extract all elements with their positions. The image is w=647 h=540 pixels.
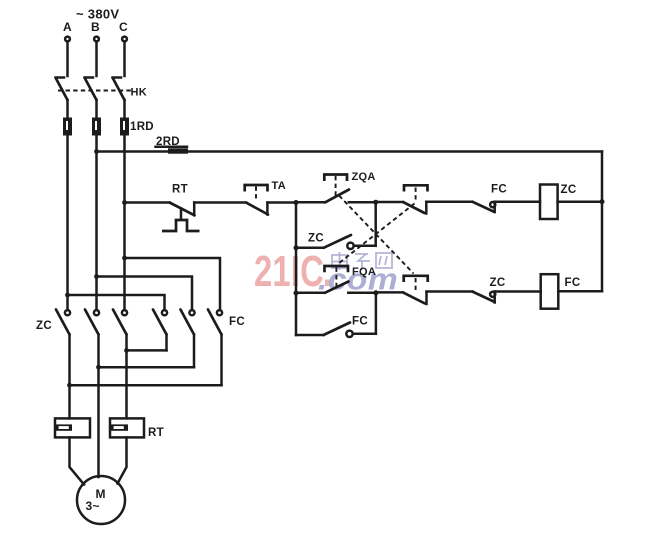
wire FC2 output to phase B: [99, 366, 195, 369]
contactor ZC main pole 1: [56, 310, 70, 386]
wire A feed to FC pole 1: [68, 295, 165, 310]
contact ZQA interlock (NC in reverse row): [403, 276, 428, 304]
node X1: [294, 200, 299, 205]
svg-text:ZC: ZC: [490, 277, 506, 289]
svg-text:HK: HK: [131, 87, 148, 99]
contact ZC (NC electrical interlock, row2): [472, 292, 495, 303]
wire right bus: [601, 152, 604, 292]
node control tap on phase B: [94, 149, 99, 154]
pushbutton ZQA (NO start forward): [296, 175, 376, 203]
wire heater C to motor: [118, 437, 127, 483]
wire interlock to FC contact: [426, 200, 472, 203]
pushbutton FQA (NO start reverse): [296, 266, 376, 293]
contact ZC (NO self-holding forward): [296, 235, 376, 249]
node bus row1: [600, 199, 605, 204]
node X3 reverse: [373, 290, 378, 295]
svg-text:ZQA: ZQA: [352, 171, 376, 183]
svg-text:ZC: ZC: [561, 184, 577, 196]
svg-text:FQA: FQA: [352, 266, 376, 278]
mechanical link ZQA to reverse interlock (dashed): [339, 196, 414, 274]
switch HK pole C: [113, 78, 125, 118]
wire left branch bus X1 down: [295, 203, 298, 336]
watermark dianziwang characters: [332, 252, 392, 270]
switch HK linkage (dashed): [58, 90, 131, 92]
wire heater A to motor: [70, 437, 85, 484]
contactor FC main pole 1: [153, 310, 167, 351]
contactor ZC main pole 3: [113, 310, 127, 351]
svg-text:FC: FC: [229, 316, 245, 328]
svg-text:ZC: ZC: [308, 233, 324, 245]
wire control feed line to right bus: [97, 150, 603, 153]
wire ZC coil to bus: [558, 200, 602, 203]
node control row1 tap on phase C: [122, 200, 127, 205]
wire phase C from fuse down: [123, 136, 126, 311]
mechanical link FQA to forward interlock (dashed): [339, 204, 415, 264]
watermark 21IC: [254, 247, 335, 296]
node X2 forward: [373, 200, 378, 205]
wire reverse node vertical: [375, 293, 378, 334]
svg-text:C: C: [119, 20, 128, 34]
wire ZC contact to FC coil: [495, 290, 541, 293]
wire phase C down to heater: [125, 350, 128, 418]
node ZC branch: [294, 245, 299, 250]
contactor FC main pole 2: [181, 310, 195, 368]
wire FC1 output cross to phase C: [127, 349, 167, 352]
svg-text:FC: FC: [491, 184, 507, 196]
wire interlock to ZC contact: [427, 290, 473, 293]
fuse 1RD pole C: [120, 118, 129, 136]
node FC feed tap phase B: [94, 274, 99, 279]
wire phase B drop: [95, 42, 98, 77]
coil ZC (forward contactor): [540, 185, 558, 220]
motor M 3~: [77, 476, 125, 524]
wire RT to TA: [194, 201, 246, 204]
contactor ZC main pole 2: [85, 310, 99, 368]
wire FC contact to ZC coil: [495, 200, 540, 203]
heater RT element phase C: [110, 418, 144, 437]
heater RT element phase A: [55, 418, 90, 437]
node cross C: [124, 348, 129, 353]
node FC feed tap phase A: [65, 293, 70, 298]
node FC feed tap phase C: [122, 256, 127, 261]
fuse 1RD pole A: [63, 118, 72, 136]
terminal B: [94, 37, 99, 42]
wire phase A drop: [66, 42, 69, 77]
contact FC (NC electrical interlock, row1): [472, 202, 495, 212]
wire FC coil to bus: [558, 290, 602, 293]
wire phase B from fuse down: [95, 136, 98, 311]
contact FC (NO self-holding reverse): [296, 323, 376, 337]
wire phase A down to heater: [68, 385, 71, 418]
wire FC3 output cross to phase A: [70, 384, 222, 387]
contact FQA interlock (NC in forward row): [403, 185, 428, 213]
switch HK pole A: [56, 78, 68, 118]
pushbutton TA (NC stop): [245, 185, 268, 215]
wire C feed to FC pole 3: [125, 258, 221, 310]
wire B feed to FC pole 2: [97, 277, 193, 311]
switch HK pole B: [85, 78, 97, 118]
svg-text:3~: 3~: [86, 499, 100, 513]
svg-text:TA: TA: [272, 180, 286, 192]
contactor FC main pole 3: [208, 310, 222, 386]
wire phase A from fuse to ZC contact: [66, 136, 69, 311]
wire TA to node X1: [267, 201, 296, 204]
node row2 branch X1: [294, 291, 299, 296]
fuse 1RD pole B: [92, 118, 101, 136]
svg-text:FC: FC: [352, 316, 368, 328]
terminal A: [65, 37, 70, 42]
wire row1 X2 to interlock: [376, 201, 403, 204]
svg-text:RT: RT: [148, 427, 164, 439]
wire forward node vertical: [374, 202, 377, 246]
svg-text:RT: RT: [172, 184, 188, 196]
fuse 2RD: [168, 148, 188, 153]
svg-text:A: A: [63, 20, 72, 34]
svg-text:B: B: [91, 20, 100, 34]
svg-text:1RD: 1RD: [130, 121, 154, 133]
node cross B: [96, 365, 101, 370]
node cross A: [67, 383, 72, 388]
relay contact RT (NC, thermal): [162, 203, 200, 232]
wire phase C drop: [123, 42, 126, 77]
terminal C: [122, 37, 127, 42]
wire phase B down to motor: [97, 367, 100, 477]
svg-text:FC: FC: [565, 277, 581, 289]
svg-text:21IC: 21IC: [254, 247, 324, 296]
svg-text:ZC: ZC: [36, 320, 52, 332]
wire row1 to RT: [125, 201, 170, 204]
wire row2 X3 to interlock: [376, 291, 403, 294]
coil FC (reverse contactor): [541, 274, 559, 309]
